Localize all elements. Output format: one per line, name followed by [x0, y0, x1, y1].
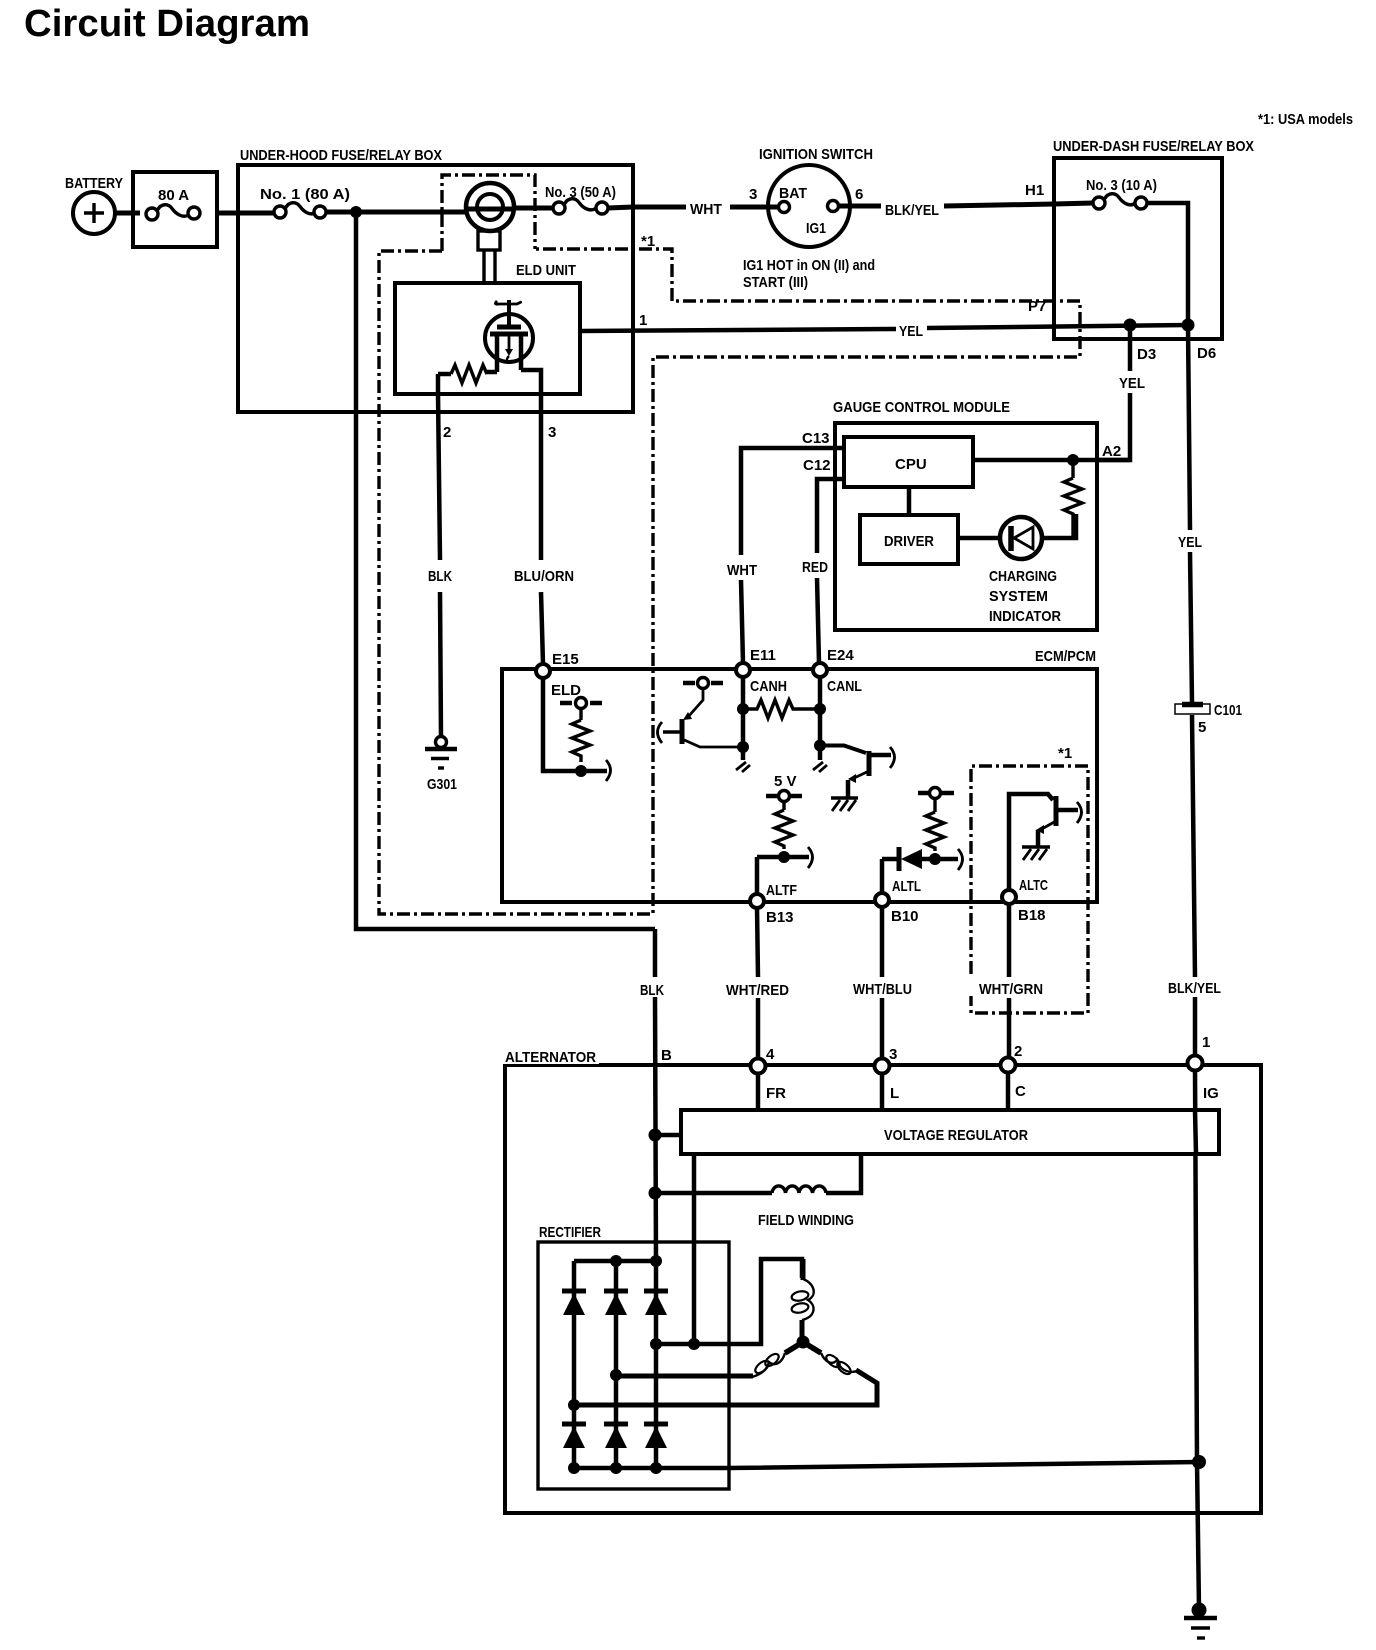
svg-text:E11: E11	[750, 647, 776, 664]
terminal 4	[751, 1059, 766, 1074]
stator coil W (right)	[803, 1342, 821, 1353]
svg-text:ALTF: ALTF	[766, 882, 797, 899]
svg-text:B: B	[661, 1047, 672, 1064]
CPU box	[844, 437, 973, 487]
transistor Q3 (ALTC)	[1009, 794, 1082, 890]
ELD unit box	[395, 283, 580, 394]
title	[24, 3, 310, 45]
junction dot D6	[1182, 319, 1195, 332]
DRIVER box	[860, 515, 958, 564]
svg-text:3: 3	[749, 186, 757, 203]
label B	[661, 1047, 672, 1064]
junction dot CANL	[814, 740, 826, 752]
label ELD (pin)	[551, 682, 581, 699]
label C12	[803, 457, 831, 474]
voltage regulator box	[681, 1110, 1219, 1154]
wire FR to VR	[756, 1073, 761, 1110]
svg-text:2: 2	[1014, 1043, 1022, 1060]
svg-text:WHT/RED: WHT/RED	[726, 982, 789, 999]
label YEL	[899, 323, 923, 340]
diode D4 bottom	[562, 1424, 586, 1448]
wire CANH down	[741, 677, 746, 760]
wire IG inside VR	[1195, 1110, 1196, 1154]
wire CPU to DRIVER	[907, 487, 912, 515]
node E11	[736, 663, 750, 677]
wire B13 down WHT/RED	[757, 908, 758, 1059]
wire B to field winding	[655, 1191, 772, 1196]
svg-text:3: 3	[548, 424, 556, 441]
label UNDER-DASH FUSE/RELAY BOX	[1053, 138, 1254, 155]
label A2	[1102, 443, 1121, 460]
under-hood fuse/relay box	[238, 165, 633, 412]
svg-text:C13: C13	[802, 430, 830, 447]
label BATTERY	[65, 175, 123, 192]
fuse No.1 80A	[274, 203, 326, 218]
svg-text:YEL: YEL	[1178, 534, 1202, 551]
5V source	[774, 773, 797, 790]
junction dot A2 resistor	[1067, 454, 1079, 466]
junction dots CAN resistor	[737, 703, 749, 715]
svg-text:*1: USA models: *1: USA models	[1258, 111, 1353, 128]
svg-text:E24: E24	[827, 647, 854, 664]
wire VR bottom to field winding	[826, 1154, 861, 1193]
svg-text:2: 2	[443, 424, 451, 441]
node ALTC	[1002, 890, 1016, 904]
junction dot ALTL diode	[929, 853, 941, 865]
wire B10 down WHT/BLU	[880, 907, 885, 1059]
svg-text:5: 5	[1198, 719, 1206, 736]
diode D5 bottom	[604, 1424, 628, 1448]
svg-text:5 V: 5 V	[774, 773, 797, 790]
label WHT (C13 wire)	[724, 560, 762, 579]
note *1 USA models	[1258, 111, 1353, 128]
dash-dot box *1 (ALTC)	[971, 766, 1088, 1013]
wire IG1 to under-dash box	[839, 203, 1093, 206]
label CHARGING SYSTEM INDICATOR	[989, 568, 1061, 625]
node E24	[813, 663, 827, 677]
terminal 1	[1188, 1056, 1203, 1071]
svg-text:BLK/YEL: BLK/YEL	[1168, 980, 1221, 997]
label GAUGE CONTROL MODULE	[833, 399, 1010, 416]
svg-text:*1: *1	[641, 233, 655, 250]
svg-text:CANH: CANH	[750, 678, 787, 695]
wire CANL down	[818, 677, 823, 760]
svg-text:BAT: BAT	[779, 185, 807, 202]
svg-text:WHT: WHT	[727, 562, 757, 579]
fuse No.3 50A	[553, 199, 608, 214]
under-dash fuse/relay box	[1054, 158, 1222, 339]
resistor (ALTF 5V)	[775, 810, 793, 849]
svg-text:VOLTAGE REGULATOR: VOLTAGE REGULATOR	[884, 1127, 1028, 1144]
label 80 A	[158, 187, 189, 204]
wire D6 down to C101 and alternator	[1188, 325, 1195, 1056]
rectifier box	[538, 1242, 729, 1489]
ELD pin 3 wire	[541, 394, 543, 664]
junction dot main bus	[350, 206, 362, 218]
resistor (ELD pull-up)	[572, 720, 590, 762]
svg-text:INDICATOR: INDICATOR	[989, 608, 1061, 625]
wire BLK/YEL to ground	[1197, 1462, 1199, 1610]
pull-up source (ALTL)	[918, 788, 954, 813]
svg-text:6: 6	[855, 186, 863, 203]
hatch end CANH	[736, 762, 750, 772]
label BLU/ORN	[512, 567, 580, 585]
pull-up source (ELD)	[560, 698, 602, 721]
wire fuse to D6 junction	[1147, 203, 1188, 325]
hook (ALTF)	[808, 847, 813, 868]
svg-text:C101: C101	[1214, 702, 1242, 719]
field winding coil	[772, 1186, 826, 1193]
label ECM/PCM	[1035, 648, 1096, 665]
star point	[797, 1336, 810, 1349]
junction dot FR line	[688, 1338, 700, 1350]
svg-text:SYSTEM: SYSTEM	[989, 588, 1048, 605]
svg-text:B18: B18	[1018, 907, 1046, 924]
wire fuse box to under-hood box	[217, 211, 274, 216]
transistor Q1 (CANH)	[658, 689, 744, 747]
resistor (indicator pull-up)	[1064, 460, 1082, 537]
junction dot ALTF	[778, 851, 790, 863]
ground (ALTC transistor)	[1022, 847, 1050, 860]
svg-text:IGNITION SWITCH: IGNITION SWITCH	[759, 146, 873, 163]
wire B down to alternator/rectifier	[655, 929, 656, 1261]
dash-dot box ELD sensor	[379, 175, 1080, 914]
svg-text:C: C	[1015, 1083, 1026, 1100]
svg-text:G301: G301	[427, 776, 457, 793]
labels 4 3 2	[766, 1043, 1022, 1063]
svg-text:E15: E15	[552, 651, 579, 668]
label BLK/YEL (vertical wire)	[1168, 980, 1221, 997]
junction dot ground	[1192, 1603, 1207, 1618]
svg-text:H1: H1	[1025, 182, 1044, 199]
svg-text:BLK/YEL: BLK/YEL	[885, 202, 939, 219]
rectifier top bus	[574, 1259, 658, 1264]
wire IG through VR down	[1195, 1070, 1197, 1462]
wire C13	[741, 448, 844, 663]
wire L to VR	[880, 1073, 885, 1110]
junction dot B-VR	[649, 1129, 662, 1142]
ELD mosfet	[485, 300, 541, 394]
wire DRIVER to LED	[958, 536, 1000, 541]
svg-text:B13: B13	[766, 909, 794, 926]
label No. 3 (50 A)	[545, 184, 616, 201]
label FIELD WINDING	[758, 1212, 854, 1229]
wire battery to 80A fuse box	[115, 211, 140, 216]
svg-text:BATTERY: BATTERY	[65, 175, 123, 192]
wire C12	[817, 479, 844, 663]
stator coil V (left)	[785, 1342, 803, 1353]
svg-text:ALTERNATOR: ALTERNATOR	[505, 1049, 596, 1066]
svg-text:P7: P7	[1028, 298, 1046, 315]
svg-text:BLK: BLK	[640, 982, 664, 999]
hook (ALTL)	[958, 849, 963, 870]
ELD current sensor	[466, 183, 515, 283]
transistor Q2 (CANL)	[820, 746, 895, 799]
junction dot phase W	[568, 1399, 580, 1411]
junction dot B-FW	[649, 1187, 662, 1200]
label YEL (D3)	[1119, 375, 1145, 392]
svg-text:UNDER-HOOD FUSE/RELAY BOX: UNDER-HOOD FUSE/RELAY BOX	[240, 147, 442, 164]
node ALTL	[875, 893, 889, 907]
svg-text:IG: IG	[1203, 1085, 1219, 1102]
svg-text:1: 1	[1202, 1034, 1210, 1051]
svg-text:ALTC: ALTC	[1019, 877, 1048, 894]
junction dot D3	[1124, 319, 1137, 332]
label 1	[639, 312, 647, 329]
svg-text:GAUGE CONTROL MODULE: GAUGE CONTROL MODULE	[833, 399, 1010, 416]
svg-text:B10: B10	[891, 908, 919, 925]
svg-text:No. 3 (50 A): No. 3 (50 A)	[545, 184, 616, 201]
wire stator phase U (to B col)	[656, 1259, 802, 1344]
svg-text:ELD: ELD	[551, 682, 581, 699]
wire A2 from CPU	[973, 458, 1130, 463]
label ELD UNIT	[516, 262, 576, 279]
LED charging system indicator	[1000, 514, 1076, 559]
battery	[73, 192, 115, 234]
diode D3 top (B column)	[644, 1261, 668, 1468]
resistor in ELD unit	[451, 365, 487, 383]
wire C to VR	[1006, 1072, 1011, 1110]
note IG1 HOT	[743, 257, 875, 291]
junction dot ELD	[575, 765, 587, 777]
diode D6 bottom	[644, 1424, 668, 1448]
wire 5V to ALTF node	[757, 857, 809, 894]
junction dot phase V	[610, 1369, 622, 1381]
label No. 3 (10 A)	[1086, 177, 1157, 194]
svg-text:START (III): START (III)	[743, 274, 808, 291]
hook (E15 branch)	[606, 760, 611, 781]
svg-text:A2: A2	[1102, 443, 1121, 460]
wire No.1 fuse to ELD sensor	[326, 210, 468, 215]
diode D1 top	[562, 1261, 586, 1468]
svg-text:FR: FR	[766, 1085, 786, 1102]
svg-text:CPU: CPU	[895, 456, 927, 473]
svg-text:IG1 HOT in ON (II) and: IG1 HOT in ON (II) and	[743, 257, 875, 274]
rectifier bottom bus	[574, 1462, 1199, 1468]
diode D2 top	[604, 1261, 628, 1468]
svg-text:IG1: IG1	[806, 220, 826, 237]
junction dot phase U / B col	[650, 1338, 662, 1350]
label *1 (under-hood)	[641, 233, 655, 250]
label 3 BAT 6 IG1	[749, 185, 863, 237]
svg-text:L: L	[890, 1085, 899, 1102]
svg-text:D3: D3	[1137, 346, 1156, 363]
svg-text:C12: C12	[803, 457, 831, 474]
label UNDER-HOOD FUSE/RELAY BOX	[240, 147, 442, 164]
label BLK/YEL	[885, 202, 939, 219]
svg-text:1: 1	[639, 312, 647, 329]
svg-text:UNDER-DASH FUSE/RELAY BOX: UNDER-DASH FUSE/RELAY BOX	[1053, 138, 1254, 155]
labels FR L C IG	[766, 1083, 1219, 1102]
label YEL (D6)	[1178, 534, 1202, 551]
junction dots top bus	[610, 1255, 622, 1267]
ignition switch	[768, 165, 850, 247]
label C13	[802, 430, 830, 447]
connector C101	[1175, 704, 1210, 714]
svg-text:3: 3	[889, 1046, 897, 1063]
pull-up source (CANH transistor)	[683, 678, 723, 689]
svg-text:DRIVER: DRIVER	[884, 533, 934, 550]
svg-text:4: 4	[766, 1046, 775, 1063]
junction dot CANH emitter	[737, 741, 749, 753]
label 1 (alternator pin)	[1202, 1034, 1210, 1051]
svg-text:WHT: WHT	[690, 201, 722, 218]
wire B line to VR left	[655, 1133, 681, 1138]
wire No.3 fuse to ignition BAT	[515, 207, 779, 208]
svg-text:CANL: CANL	[827, 678, 862, 695]
hatch end CANL	[813, 762, 827, 772]
svg-text:BLK: BLK	[428, 568, 452, 585]
label P7	[1028, 298, 1046, 315]
ground (CANL transistor)	[831, 798, 858, 811]
alternator box	[505, 1065, 1261, 1513]
svg-text:No. 1 (80 A): No. 1 (80 A)	[260, 186, 350, 203]
svg-text:Circuit Diagram: Circuit Diagram	[24, 3, 310, 45]
terminal 3	[875, 1059, 890, 1074]
wire BLK feed down-left	[356, 212, 655, 929]
svg-text:ELD UNIT: ELD UNIT	[516, 262, 576, 279]
resistor (ALTL)	[926, 812, 944, 851]
svg-text:CHARGING: CHARGING	[989, 568, 1057, 585]
svg-text:ALTL: ALTL	[892, 878, 921, 895]
fuse 80A	[146, 205, 200, 220]
wire D3 YEL down to A2	[1097, 325, 1130, 460]
svg-text:D6: D6	[1197, 345, 1216, 362]
svg-text:ECM/PCM: ECM/PCM	[1035, 648, 1096, 665]
label No. 1 (80 A)	[260, 186, 350, 203]
diode ALTL	[882, 847, 958, 871]
ground symbol (bottom right)	[1184, 1618, 1217, 1638]
ELD pin 1 wire YEL	[580, 325, 1188, 331]
svg-text:YEL: YEL	[899, 323, 923, 340]
svg-text:BLU/ORN: BLU/ORN	[514, 568, 574, 585]
wire ALTL up	[880, 859, 885, 894]
label H1	[1025, 182, 1044, 199]
ECM/PCM box	[502, 669, 1097, 902]
resistor CANH-CANL	[743, 700, 820, 718]
label WHT	[686, 198, 730, 218]
ELD pin 2 wire	[438, 374, 441, 737]
label RECTIFIER	[539, 1224, 601, 1241]
svg-text:RECTIFIER: RECTIFIER	[539, 1224, 601, 1241]
fuse No.3 10A	[1093, 194, 1147, 209]
label BLK	[426, 567, 458, 585]
stator coil U (vertical)	[802, 1279, 814, 1320]
svg-text:No. 3 (10 A): No. 3 (10 A)	[1086, 177, 1157, 194]
svg-text:FIELD WINDING: FIELD WINDING	[758, 1212, 854, 1229]
svg-text:RED: RED	[802, 559, 828, 576]
svg-text:YEL: YEL	[1119, 375, 1145, 392]
ground G301	[425, 737, 457, 769]
label 3	[548, 424, 556, 441]
junction dots bottom bus	[568, 1462, 580, 1474]
label CANL	[827, 678, 862, 695]
svg-text:WHT/BLU: WHT/BLU	[853, 981, 912, 998]
label BLK (B wire)	[637, 978, 670, 999]
wire VR(FR) down to stator	[692, 1154, 697, 1344]
svg-text:*1: *1	[1058, 745, 1072, 762]
node ALTF	[750, 894, 764, 908]
svg-text:WHT/GRN: WHT/GRN	[979, 981, 1043, 998]
label D3 D6	[1137, 345, 1216, 363]
label RED (C12 wire)	[800, 557, 833, 576]
fuse box 80A	[133, 172, 217, 247]
label CANH	[750, 678, 787, 695]
wire E15 down	[543, 678, 607, 771]
label ALTERNATOR	[503, 1046, 599, 1066]
svg-text:80 A: 80 A	[158, 187, 189, 204]
wire B18 down WHT/GRN	[1007, 904, 1012, 1058]
junction dot ground bus / BLK-YEL	[1192, 1455, 1206, 1469]
gauge control module box	[835, 423, 1097, 630]
node E15	[536, 664, 550, 678]
label 2	[443, 424, 451, 441]
terminal 2	[1001, 1058, 1016, 1073]
label IGNITION SWITCH	[759, 146, 873, 163]
